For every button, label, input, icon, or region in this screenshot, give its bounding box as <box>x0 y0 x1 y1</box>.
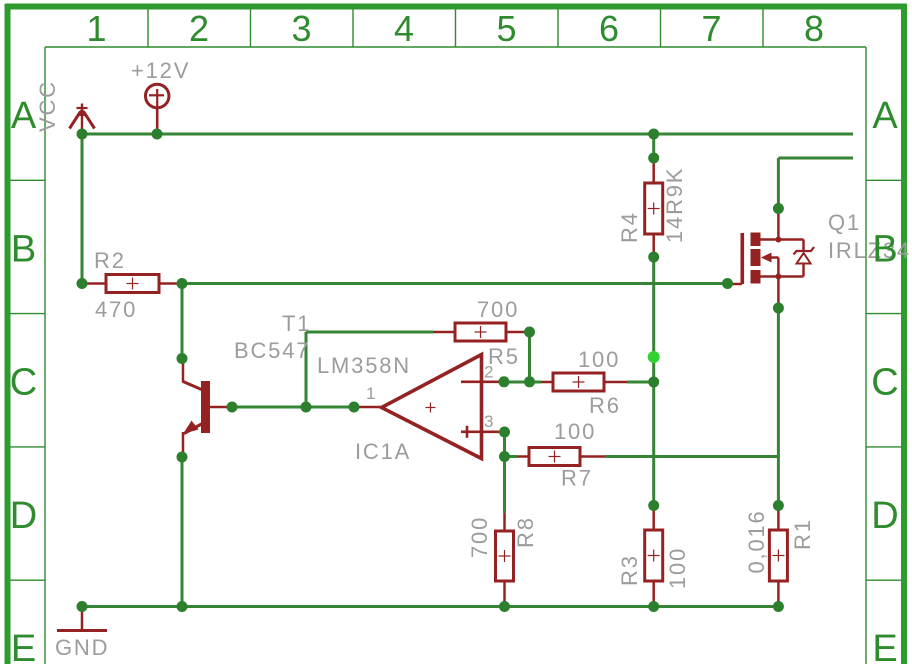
svg-text:R5: R5 <box>488 344 520 369</box>
wire pin2 to R6 <box>504 381 541 384</box>
svg-text:100: 100 <box>665 547 690 589</box>
junction node R2 right <box>177 278 188 289</box>
svg-text:100: 100 <box>554 419 596 444</box>
junction node GND <box>77 601 88 612</box>
svg-text:5: 5 <box>496 8 516 49</box>
wire vertical x=778 to Q1 drain <box>777 158 780 206</box>
resistor R7 <box>517 448 605 466</box>
svg-text:6: 6 <box>599 8 619 49</box>
junction node Q1 drain <box>773 203 784 214</box>
junction node Q1 gate <box>722 278 733 289</box>
svg-text:0,016: 0,016 <box>744 509 769 573</box>
svg-text:3: 3 <box>484 412 495 431</box>
junction node R1 bottom <box>773 601 784 612</box>
svg-text:A: A <box>872 95 898 137</box>
svg-text:E: E <box>11 628 36 664</box>
junction node highlighted <box>648 351 660 363</box>
wire pin3 down to R7 junction <box>503 432 506 457</box>
junction node R4 top <box>648 153 659 164</box>
svg-text:7: 7 <box>701 8 721 49</box>
junction node pin2 <box>499 376 510 387</box>
junction node T1 base <box>227 402 238 413</box>
svg-text:1: 1 <box>86 8 106 49</box>
svg-text:GND: GND <box>55 635 109 660</box>
wire vertical to T1 collector <box>181 284 184 361</box>
svg-text:700: 700 <box>467 516 492 558</box>
resistor R2 <box>84 275 180 293</box>
junction node R3 bottom <box>648 601 659 612</box>
svg-text:14R9K: 14R9K <box>662 167 687 243</box>
wire Q1 source down to R1 <box>777 308 780 506</box>
svg-text:IC1A: IC1A <box>355 439 411 464</box>
svg-text:8: 8 <box>804 8 824 49</box>
svg-text:B: B <box>872 228 897 270</box>
svg-text:A: A <box>11 95 37 137</box>
junction node R2 left <box>77 278 88 289</box>
junction node R6 right <box>648 377 659 388</box>
wire vertical x=654 R4 to R3 <box>652 134 655 158</box>
junction node Q1 source <box>773 303 784 314</box>
junction node pin3 <box>499 427 510 438</box>
resistor R1 <box>769 509 787 602</box>
supply symbol VCC arrow <box>70 104 95 133</box>
svg-text:4: 4 <box>394 8 414 49</box>
junction node pin2 R5 <box>524 376 535 387</box>
wire vertical VCC to R2 <box>81 134 84 284</box>
wire feedback horizontal to R5 <box>306 331 433 334</box>
junction node R3 top <box>648 500 659 511</box>
svg-text:BC547: BC547 <box>234 338 310 363</box>
junction node R1 top <box>773 500 784 511</box>
resistor R6 <box>541 373 627 391</box>
wire row B R2 to Q1 gate <box>182 282 728 285</box>
wire T1 emitter to bottom rail <box>181 457 184 607</box>
svg-text:R4: R4 <box>617 211 642 243</box>
svg-text:R8: R8 <box>513 516 538 548</box>
wire R5 right down to pin2 net <box>528 332 531 382</box>
svg-text:IRLZ34: IRLZ34 <box>828 238 911 263</box>
frame row letters left <box>10 95 37 664</box>
wire R7 right to x=778 <box>605 455 778 458</box>
svg-text:+12V: +12V <box>131 58 190 83</box>
wire T1 base to opamp output <box>232 406 356 409</box>
svg-text:3: 3 <box>291 8 311 49</box>
svg-text:D: D <box>10 495 37 537</box>
svg-text:LM358N: LM358N <box>317 353 411 378</box>
frame row letters right <box>871 95 898 664</box>
svg-text:C: C <box>10 362 37 404</box>
junction node R7 left <box>499 451 510 462</box>
junction node +12V <box>152 129 163 140</box>
svg-text:2: 2 <box>189 8 209 49</box>
wire drain stub top right <box>778 157 853 160</box>
resistor R8 <box>496 513 514 602</box>
op-amp IC1A <box>356 355 499 459</box>
resistor R5 <box>433 323 527 341</box>
svg-text:R6: R6 <box>589 393 621 418</box>
resistor R4 <box>645 158 663 257</box>
svg-text:100: 100 <box>578 347 620 372</box>
svg-text:R2: R2 <box>94 248 126 273</box>
svg-text:C: C <box>871 362 898 404</box>
transistor T1 <box>183 361 229 454</box>
junction node rail R4 <box>648 129 659 140</box>
junction node VCC arrow <box>77 129 88 140</box>
svg-text:470: 470 <box>95 297 137 322</box>
svg-text:700: 700 <box>477 297 519 322</box>
svg-text:T1: T1 <box>282 311 311 336</box>
svg-text:D: D <box>871 495 898 537</box>
svg-text:VCC: VCC <box>35 80 60 132</box>
wire R6 right to vertical node <box>627 381 654 384</box>
svg-text:R3: R3 <box>617 554 642 586</box>
junction node emitter rail <box>177 601 188 612</box>
junction node R4 bottom <box>648 252 659 263</box>
resistor R3 <box>645 509 663 602</box>
svg-text:R1: R1 <box>790 518 815 550</box>
junction node opamp output <box>349 402 360 413</box>
junction node T1 collector <box>177 353 188 364</box>
frame column numbers <box>86 8 824 49</box>
svg-text:E: E <box>872 628 897 664</box>
junction node R5 right <box>524 327 535 338</box>
wire R7 junction to R7 left <box>505 455 518 458</box>
svg-text:1: 1 <box>366 384 377 403</box>
wire junction down to R8 <box>503 457 506 514</box>
wire bottom GND rail <box>82 605 778 608</box>
ground symbol GND <box>57 607 107 631</box>
wire feedback vertical x=306 <box>305 332 308 407</box>
svg-text:R7: R7 <box>561 466 593 491</box>
junction node T1 emitter <box>177 452 188 463</box>
transistor Q1 MOSFET <box>728 210 814 306</box>
svg-text:Q1: Q1 <box>828 210 861 235</box>
svg-text:B: B <box>11 228 36 270</box>
supply symbol +12V circle <box>145 84 169 132</box>
junction node feedback <box>301 402 312 413</box>
junction node R8 bottom <box>499 601 510 612</box>
wire VCC rail row A <box>82 133 853 136</box>
